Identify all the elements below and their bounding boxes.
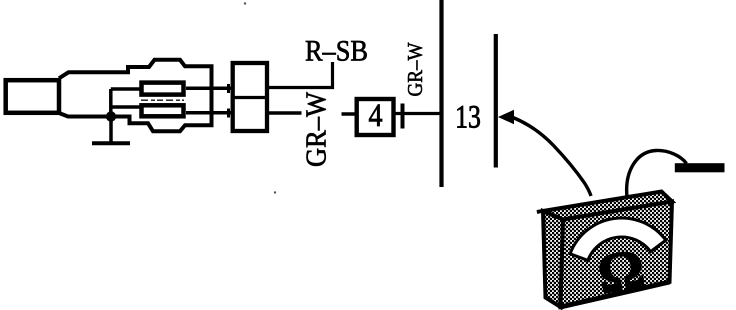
- wire GR-W segment: [269, 111, 302, 115]
- terminal tick: [401, 104, 405, 129]
- wire upper to connector: [186, 87, 231, 91]
- svg-text:GR–W: GR–W: [403, 42, 427, 97]
- meter scale band: [566, 211, 668, 265]
- connector block: [233, 63, 267, 131]
- wire lower to connector: [186, 111, 231, 115]
- junction block right bar: [494, 34, 498, 168]
- junction block left bar: [439, 0, 443, 187]
- svg-text:R–SB: R–SB: [305, 35, 368, 68]
- ohmmeter corner spur: [537, 211, 545, 213]
- svg-text:4: 4: [368, 97, 382, 134]
- wire upper contact to vertical: [111, 87, 141, 91]
- ohmmeter left face: [543, 211, 563, 307]
- wire into gauge 4: [342, 112, 357, 116]
- switch plug boot: [6, 80, 59, 113]
- ohmmeter front face: [561, 202, 673, 308]
- wire R-SB: [269, 62, 333, 88]
- scan speck 1: [244, 2, 246, 4]
- contact gap dashes: [141, 99, 184, 101]
- scan speck 2: [274, 191, 276, 193]
- contact lower: [142, 105, 184, 116]
- ohmmeter bottom edge: [561, 282, 670, 307]
- junction dot: [106, 111, 116, 121]
- label 13: [455, 99, 481, 135]
- ohmmeter top face: [543, 192, 672, 220]
- probe lead 1: [513, 118, 591, 197]
- terminal tab lower: [227, 109, 230, 118]
- label R-SB: [305, 35, 368, 68]
- body ground bar: [675, 163, 725, 172]
- ground stem: [109, 118, 113, 142]
- svg-text:13: 13: [455, 99, 481, 135]
- terminal tab upper: [227, 84, 230, 93]
- wire internal vertical: [109, 89, 113, 117]
- wire lower contact to vertical: [111, 105, 141, 109]
- probe lead 2: [627, 150, 687, 197]
- svg-text:GR–W: GR–W: [302, 91, 333, 167]
- gauge box 4: [357, 99, 394, 135]
- probe arrow head: [498, 110, 514, 124]
- label 4: [368, 97, 382, 134]
- contact upper: [142, 83, 184, 95]
- ground bar: [92, 141, 130, 145]
- connector divider: [231, 96, 269, 99]
- switch body outline: [59, 60, 212, 132]
- wire gauge to junction block: [396, 112, 442, 115]
